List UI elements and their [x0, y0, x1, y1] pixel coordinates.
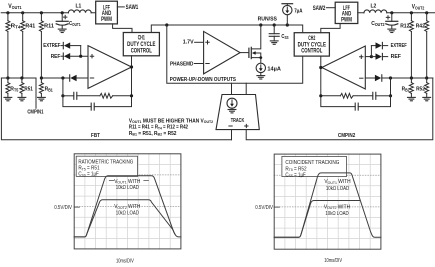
junction dot ref node	[79, 55, 82, 58]
svg-text:COINCIDENT TRACKING: COINCIDENT TRACKING	[285, 160, 339, 166]
junction dot out row1 right	[319, 94, 322, 97]
junction dot RT4 top	[6, 11, 9, 14]
svg-text:FBT: FBT	[91, 133, 100, 139]
svg-text:SAW1: SAW1	[126, 5, 139, 11]
capacitor C-FB2b lower branch	[321, 96, 391, 110]
svg-text:VOUT2: VOUT2	[412, 5, 425, 11]
junction dot COUT2	[390, 11, 393, 14]
resistor R41	[21, 13, 36, 78]
resistor RB1	[39, 78, 53, 97]
svg-text:COUT2: COUT2	[371, 21, 385, 27]
junction dot EA2 out apex	[319, 66, 322, 69]
svg-text:REF: REF	[391, 54, 402, 60]
svg-text:R42: R42	[416, 24, 425, 30]
junction dot COUT1	[61, 11, 64, 14]
wire CH1 to RUN/SS rail	[151, 25, 167, 33]
wire EA2 output column	[320, 56, 322, 96]
wire FB2 node row	[391, 77, 433, 79]
op-amp U-EA1	[88, 46, 132, 89]
junction dot EA1 out apex	[130, 65, 133, 68]
resistor R-FB1	[100, 93, 132, 98]
svg-text:10ms/DIV: 10ms/DIV	[116, 258, 134, 264]
junction dot CSS	[273, 23, 276, 26]
svg-text:POWER-UP/-DOWN OUTPUTS: POWER-UP/-DOWN OUTPUTS	[170, 77, 236, 83]
junction dot comp row1 right	[389, 94, 392, 97]
svg-text:0.5V/DIV: 0.5V/DIV	[255, 205, 273, 211]
grid left plot	[74, 154, 181, 249]
junction dot R41 top	[21, 11, 24, 14]
svg-text:10kΩ LOAD: 10kΩ LOAD	[326, 186, 350, 192]
wire VOUT1 top rail	[1, 12, 96, 14]
wire track top left	[231, 83, 233, 94]
svg-text:CH1: CH1	[138, 36, 145, 42]
svg-text:VOUT1 MUST BE HIGHER THAN VOUT: VOUT1 MUST BE HIGHER THAN VOUT2	[129, 118, 213, 124]
svg-text:10kΩ LOAD: 10kΩ LOAD	[116, 210, 140, 216]
svg-text:CMPIN1: CMPIN1	[27, 110, 44, 116]
svg-text:L2: L2	[371, 4, 377, 10]
wire CH2 to LFF2	[321, 24, 340, 33]
diode D-FB2 minus input	[365, 75, 390, 81]
wire PHASEMD to minus	[194, 63, 203, 65]
wire track minus down	[231, 130, 233, 140]
inductor L1	[68, 4, 91, 13]
svg-text:10kΩ LOAD: 10kΩ LOAD	[116, 185, 140, 191]
svg-text:RB1 = R51, RB2 = R52: RB1 = R51, RB2 = R52	[129, 131, 177, 137]
ground R52	[423, 97, 431, 100]
label VOUT1 curve right	[324, 179, 351, 192]
capacitor C-FB1a	[63, 92, 100, 99]
svg-text:RB2: RB2	[402, 86, 411, 92]
grid dotted reference rows right	[274, 175, 381, 207]
diode D-REF2	[371, 53, 387, 59]
svg-text:10ms/DIV: 10ms/DIV	[324, 258, 342, 264]
junction dot comp node 2	[389, 76, 392, 79]
svg-text:R12: R12	[400, 24, 409, 30]
transistor Q1 nmos	[240, 25, 261, 63]
svg-text:REF: REF	[51, 54, 61, 60]
junction dot out row1	[130, 94, 133, 97]
waveform VOUT1 ratiometric	[74, 176, 181, 237]
svg-text:CMPIN2: CMPIN2	[338, 133, 355, 139]
svg-text:7µA: 7µA	[294, 9, 303, 15]
svg-text:CONTROL: CONTROL	[131, 49, 152, 55]
capacitor COUT1	[56, 13, 81, 29]
junction dot mosfet drain	[259, 23, 262, 26]
junction dot 7uA	[286, 23, 289, 26]
wire 1.7V to plus	[195, 41, 204, 43]
svg-text:EXTREF: EXTREF	[43, 43, 60, 49]
svg-text:RATIOMETRIC TRACKING: RATIOMETRIC TRACKING	[78, 160, 133, 166]
svg-text:DUTY CYCLE: DUTY CYCLE	[298, 42, 326, 48]
plot border left	[74, 154, 181, 249]
diode D-REF1	[61, 53, 88, 59]
resistor R52	[416, 78, 429, 97]
junction dot R52 top	[425, 76, 428, 79]
capacitor COUT2	[371, 13, 398, 29]
diode D-EXTREF2	[371, 42, 387, 48]
diode D-EXTREF1	[61, 42, 81, 48]
ground 14uA	[257, 76, 265, 79]
wire track top right	[245, 83, 247, 94]
junction dot comp node	[61, 76, 64, 79]
block U-LFF2 LFF AND PWM	[335, 2, 358, 23]
junction dot R12 top	[410, 11, 413, 14]
resistor RT5	[6, 78, 19, 97]
current source I-7uA	[282, 4, 303, 25]
resistor R-FB2	[321, 93, 353, 98]
junction dot R51 top	[20, 76, 23, 79]
wire EXTREF elbow	[80, 46, 82, 57]
axis label 0.5V/DIV left	[54, 205, 79, 211]
svg-text:CSS: CSS	[281, 34, 288, 40]
svg-text:VOUT1 WITH: VOUT1 WITH	[114, 179, 141, 185]
svg-text:CONTROL: CONTROL	[301, 49, 322, 55]
svg-text:RUN/SS: RUN/SS	[258, 17, 277, 23]
axis label 0.5V/DIV right	[255, 205, 279, 211]
svg-text:R11 = R41 = RT4 = R12 = R42: R11 = R41 = RT4 = R12 = R42	[129, 125, 188, 131]
wire plus node to EXTREF column	[365, 56, 371, 58]
svg-text:10kΩ LOAD: 10kΩ LOAD	[325, 211, 349, 217]
pin SAW2	[313, 6, 336, 12]
wire LFF1 to CH1	[113, 24, 132, 33]
pin SAW1	[117, 5, 138, 11]
wire RUN/SS rail	[167, 25, 303, 33]
svg-text:RB1: RB1	[45, 86, 54, 92]
junction dot RB2 top	[410, 76, 413, 79]
grid dotted reference rows left	[74, 175, 181, 207]
svg-text:0.5V/DIV: 0.5V/DIV	[54, 205, 72, 211]
svg-text:COUT1: COUT1	[69, 21, 81, 27]
wire EA1 output column	[131, 56, 133, 96]
svg-text:PHASEMD: PHASEMD	[170, 62, 193, 68]
block U-CH1 DUTY CYCLE CONTROL	[123, 33, 159, 56]
plot border right	[274, 154, 381, 249]
waveform VOUT1 coincident	[274, 173, 381, 237]
svg-text:R11: R11	[44, 24, 55, 30]
svg-text:R51: R51	[24, 86, 33, 92]
junction dot Q1 source	[259, 56, 262, 59]
ground COUT1	[58, 29, 66, 32]
svg-text:SAW2: SAW2	[313, 6, 326, 12]
title box left plot	[76, 156, 137, 176]
junction dot RT5 top	[6, 76, 9, 79]
op-amp U-CMP	[204, 31, 241, 74]
ground COUT2	[388, 29, 396, 32]
svg-text:14µA: 14µA	[267, 66, 281, 72]
wire FBT rail	[1, 78, 231, 140]
junction dot R11 top	[40, 11, 43, 14]
svg-text:VOUT1: VOUT1	[8, 4, 22, 10]
note text	[129, 118, 213, 137]
wire comp column 2	[390, 78, 392, 96]
wire comp column	[62, 78, 64, 96]
ground CSS	[270, 41, 278, 44]
svg-text:L1: L1	[76, 4, 82, 10]
wire EXTREF2 elbow	[370, 46, 372, 57]
label VOUT1 curve left	[109, 179, 148, 191]
resistor R42	[416, 13, 429, 78]
resistor R11	[39, 13, 54, 78]
svg-text:VOUT1 WITH: VOUT1 WITH	[324, 179, 351, 185]
ground TRACK	[228, 110, 236, 113]
wire VOUT2 top rail	[358, 12, 435, 14]
svg-text:VOUT2 WITH: VOUT2 WITH	[114, 204, 141, 210]
resistor RB2	[402, 78, 414, 97]
wire lower-left node row	[1, 78, 36, 108]
svg-text:DUTY CYCLE: DUTY CYCLE	[127, 42, 155, 48]
ground R51	[18, 97, 26, 100]
svg-text:TRACK: TRACK	[231, 118, 245, 124]
current source I-14uA	[256, 63, 282, 75]
svg-text:PWM: PWM	[101, 17, 112, 23]
grid right plot	[274, 154, 381, 249]
ground RT5	[4, 97, 12, 100]
svg-text:CSS = 1µF: CSS = 1µF	[285, 172, 306, 178]
wire power-up outline	[167, 25, 303, 83]
junction dot powerup left	[165, 23, 168, 26]
capacitor CSS	[269, 25, 289, 40]
svg-text:R41: R41	[25, 24, 36, 30]
inductor L2	[364, 4, 387, 13]
junction dot FB1	[40, 76, 43, 79]
op-amp U-EA2	[322, 46, 366, 89]
resistor R12	[400, 13, 413, 78]
svg-text:1.7V: 1.7V	[183, 40, 194, 46]
resistor R51	[20, 78, 34, 97]
waveform VOUT2 coincident	[274, 201, 359, 238]
block U-LFF1 LFF AND PWM	[96, 1, 118, 24]
current source I-TRACK	[227, 98, 237, 109]
ground RB2	[408, 97, 416, 100]
capacitor C-FB1b lower branch	[63, 96, 132, 110]
svg-text:CSS = 1µF: CSS = 1µF	[78, 172, 99, 178]
svg-text:R52: R52	[416, 86, 425, 92]
capacitor C-FB2a	[353, 92, 390, 99]
svg-text:VOUT2 WITH: VOUT2 WITH	[324, 204, 351, 210]
junction dot ref node 2	[370, 55, 373, 58]
block TRACK trapezoid	[216, 95, 259, 130]
diode D-FB1 minus input	[70, 75, 88, 81]
label VOUT2 curve right	[324, 204, 351, 217]
svg-text:RT4: RT4	[11, 24, 22, 30]
block U-CH2 DUTY CYCLE CONTROL	[294, 33, 329, 56]
label VOUT2 curve left	[114, 204, 141, 216]
junction dot R42 top	[425, 11, 428, 14]
svg-text:RT5: RT5	[10, 86, 19, 92]
junction dot comp row1	[61, 94, 64, 97]
svg-text:RT5 = R52: RT5 = R52	[285, 166, 306, 172]
svg-text:PWM: PWM	[341, 17, 352, 23]
svg-text:EXTREF: EXTREF	[391, 43, 407, 49]
title box right plot	[282, 156, 347, 176]
resistor RT4	[6, 13, 21, 78]
waveform VOUT2 ratiometric	[74, 200, 175, 237]
wire FB node row	[41, 77, 69, 79]
wire track plus down / CMPIN2 rail	[246, 78, 433, 140]
ground RB1	[38, 97, 46, 100]
svg-text:CH2: CH2	[308, 36, 315, 42]
